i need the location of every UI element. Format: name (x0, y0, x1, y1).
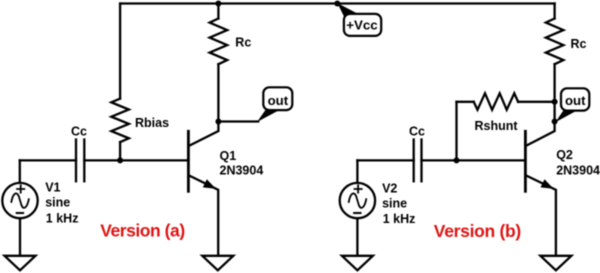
svg-text:sine: sine (45, 196, 70, 210)
svg-text:Version (b): Version (b) (434, 221, 521, 241)
svg-text:2N3904: 2N3904 (556, 164, 600, 178)
svg-text:+Vcc: +Vcc (346, 18, 377, 33)
svg-text:1 kHz: 1 kHz (383, 212, 416, 226)
svg-text:1 kHz: 1 kHz (46, 211, 79, 225)
svg-text:sine: sine (382, 196, 407, 210)
svg-text:out: out (268, 93, 289, 108)
svg-text:2N3904: 2N3904 (220, 164, 264, 178)
svg-text:Q1: Q1 (220, 149, 237, 163)
svg-text:Rbias: Rbias (135, 116, 169, 130)
svg-text:Cc: Cc (71, 124, 87, 138)
svg-text:V2: V2 (382, 182, 397, 196)
svg-text:V1: V1 (45, 180, 60, 194)
svg-text:Version (a): Version (a) (100, 221, 185, 241)
svg-text:Rc: Rc (235, 35, 251, 49)
svg-text:out: out (565, 93, 586, 108)
svg-text:Q2: Q2 (556, 148, 573, 162)
svg-text:Rshunt: Rshunt (475, 119, 519, 133)
svg-text:Rc: Rc (571, 37, 587, 51)
svg-text:Cc: Cc (409, 125, 425, 139)
